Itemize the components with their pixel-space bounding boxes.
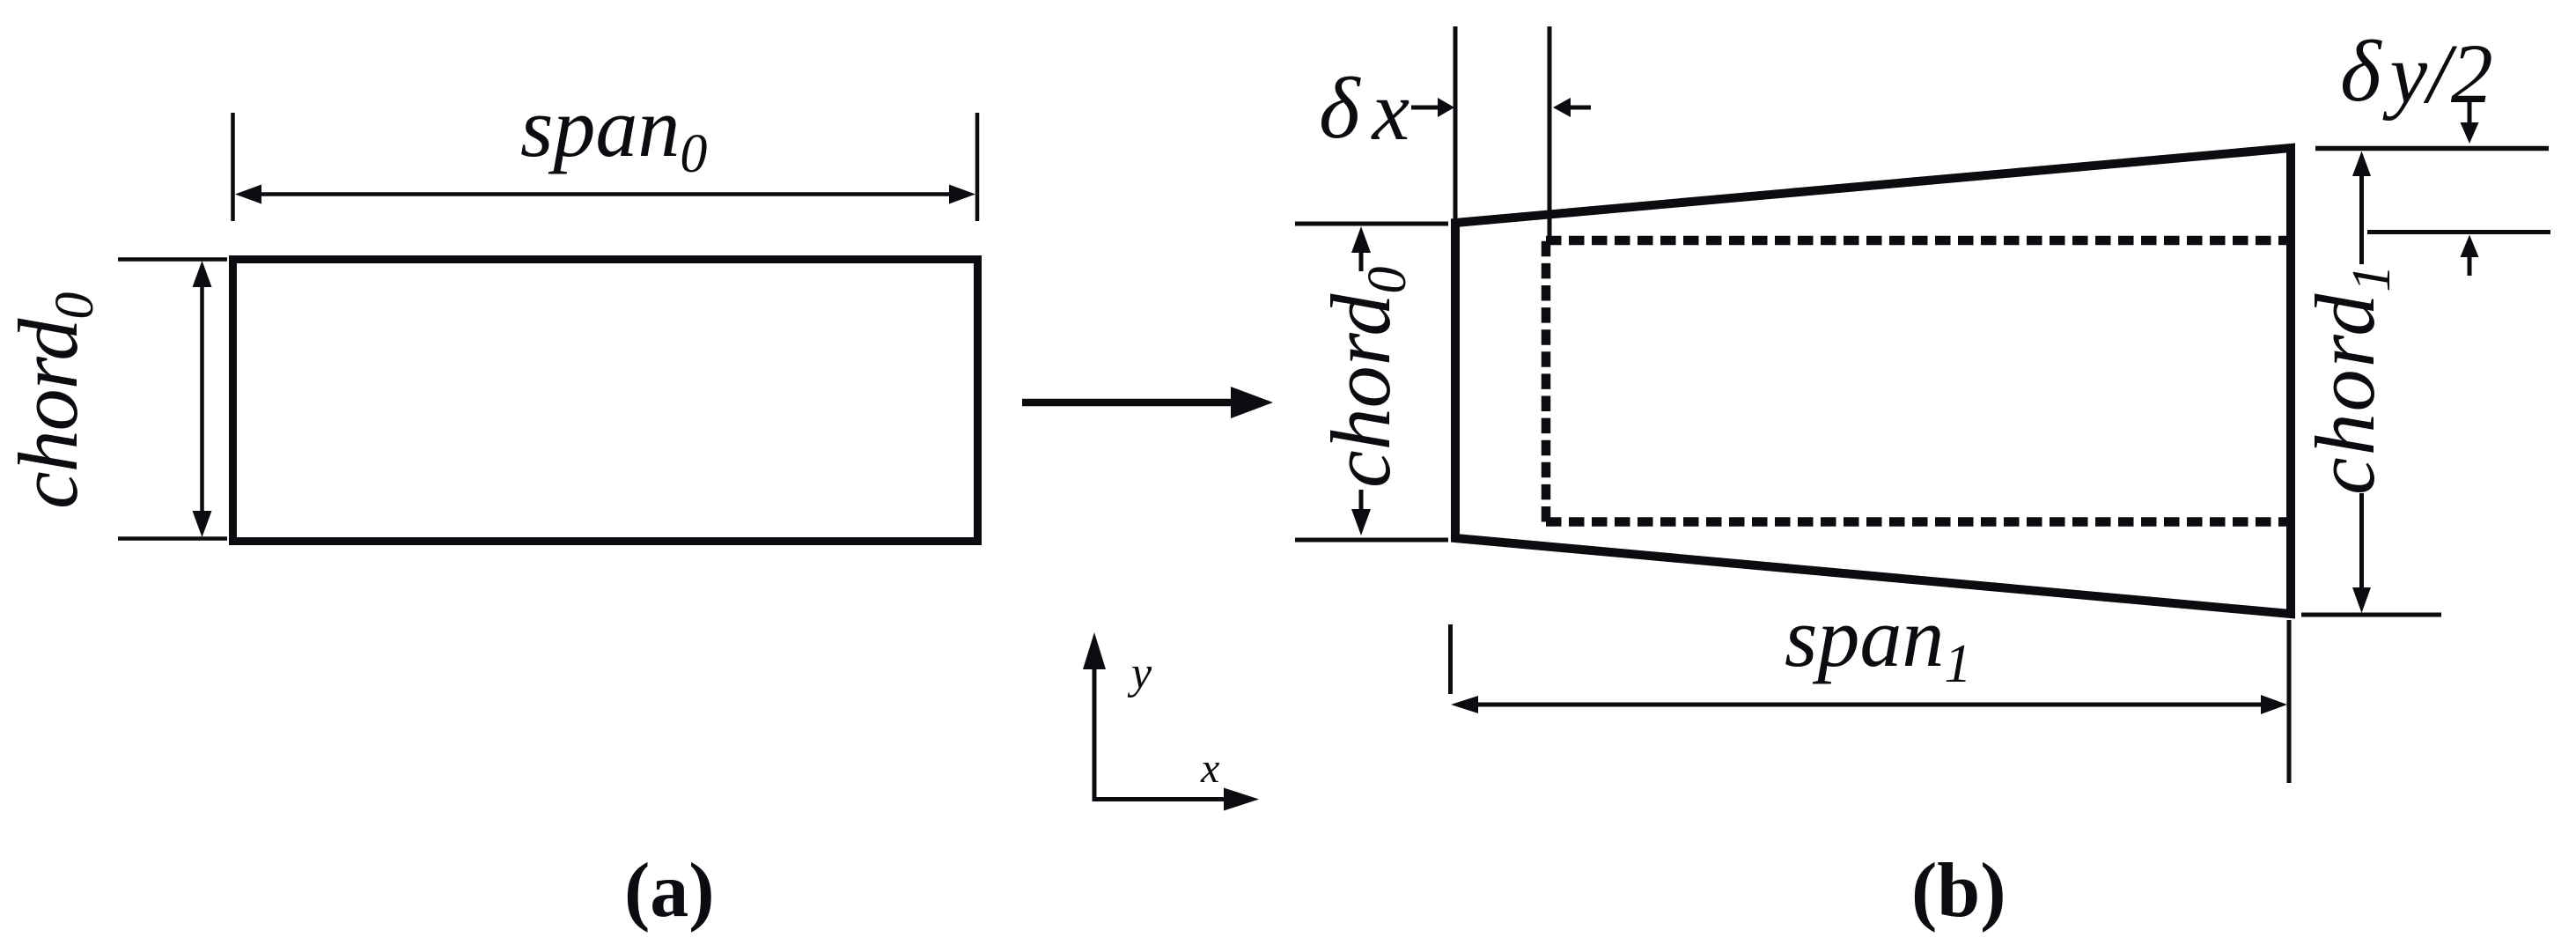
chord1 top arrow [2359,175,2364,264]
chord0 up arrow (b) [1359,251,1364,271]
delta-y/2 down arrow [2468,102,2472,123]
trapezoid wing panel (b) [1455,148,2291,614]
svg-text:chord0: chord0 [1,292,105,509]
delta-x tick 2 [1548,26,1552,238]
delta-y/2 top extension line [2315,146,2549,151]
svg-text:x: x [1200,745,1219,792]
delta-y/2 mid extension line [2367,230,2550,234]
chord0 bottom arrowhead (a) [193,511,212,537]
delta-y/2 up arrow [2468,256,2472,276]
chord1 bottom extension line [2301,613,2441,617]
chord0 top extension line (a) [118,257,227,262]
chord0 bottom extension line (a) [118,536,227,541]
span0 left arrowhead [235,185,261,204]
svg-text:(b): (b) [1911,848,2006,934]
transformation arrow [1022,399,1233,407]
svg-text:chord0: chord0 [1314,267,1417,488]
delta-x right-pointing arrow [1411,106,1440,110]
chord0 top arrowhead (a) [193,261,212,287]
svg-text:δy/2: δy/2 [2340,22,2493,121]
rectangle wing panel (a) [233,260,978,542]
svg-text:δx: δx [1319,59,1409,158]
svg-text:chord1: chord1 [2298,263,2402,495]
chord0 dimension line (a) [200,286,204,512]
dashed original rectangle (b) [1546,236,2288,246]
span1 right tick [2287,620,2292,783]
svg-text:y: y [1127,648,1152,698]
span1 left arrowhead [1451,696,1478,713]
svg-text:(a): (a) [624,848,715,934]
svg-text:span1: span1 [1785,590,1971,694]
chord0 top extension line (b) [1295,222,1448,226]
span0 right tick [975,113,980,221]
chord1 bottom arrow [2359,493,2364,588]
span0 right arrowhead [949,185,975,204]
chord0 bottom extension line (b) [1295,538,1448,543]
span0 dimension line [259,192,952,196]
span0 left tick [231,113,235,221]
y axis [1093,669,1097,800]
delta-x left-pointing arrow [1570,106,1591,110]
svg-text:span0: span0 [520,80,707,184]
span1 dimension line [1477,703,2263,707]
span1 right arrowhead [2261,695,2287,714]
delta-x tick 1 [1454,26,1458,220]
span1 left tick [1448,624,1453,694]
x axis [1093,797,1226,801]
chord0 down arrow (b) [1359,490,1364,511]
